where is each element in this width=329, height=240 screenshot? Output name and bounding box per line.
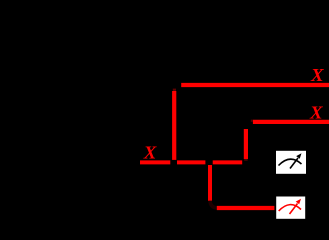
svg-text:X: X xyxy=(143,142,158,162)
corner fade riser to second wire xyxy=(251,120,253,122)
wire: second horizontal (to right edge) xyxy=(253,120,329,124)
junction block 2 on bus xyxy=(205,160,212,165)
wire: left vertical branch xyxy=(172,91,176,160)
meter M1 needle arrowhead xyxy=(296,153,301,159)
svg-text:X: X xyxy=(309,103,324,123)
meter M1 (black needle, unlit) xyxy=(276,151,306,174)
corner fade bottom xyxy=(210,201,217,208)
meter M1 scale arc xyxy=(279,159,302,165)
wire: top horizontal (to right edge) xyxy=(181,83,329,87)
corner fade top-left xyxy=(173,89,176,91)
meter M2 scale arc xyxy=(279,205,301,211)
junction block 1 on bus xyxy=(170,160,177,165)
wire: right vertical riser from bus xyxy=(244,129,248,159)
corner fade bus to riser xyxy=(244,159,247,161)
meter M2 needle arrowhead xyxy=(296,199,301,205)
wire: bottom bus horizontal xyxy=(140,160,242,164)
wire: bottom horizontal to meter M2 xyxy=(217,206,275,210)
svg-text:X: X xyxy=(310,65,325,85)
meter M2 needle xyxy=(290,204,298,215)
meter M1 needle xyxy=(290,158,298,169)
meter M2 (red needle, lit) xyxy=(276,197,305,219)
wire: middle vertical drop from bus xyxy=(208,165,212,201)
